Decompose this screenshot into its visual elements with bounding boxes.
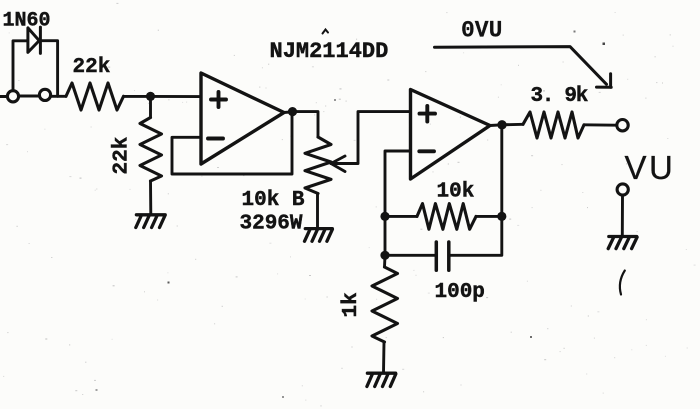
ground G2: [305, 229, 333, 242]
resistor R1 22k horizontal: [66, 83, 124, 110]
svg-text:10k B: 10k B: [242, 189, 305, 212]
terminal circle left: [7, 91, 18, 102]
wire diode branch left leg: [13, 41, 27, 90]
ground G3: [367, 373, 396, 386]
svg-text:22k: 22k: [73, 56, 111, 79]
wire 22k vertical to ground: [149, 181, 152, 214]
potentiometer VR1 10k B 3296W: [305, 137, 331, 194]
wire U1 apex to output node: [284, 110, 293, 114]
node C U2 output junction dot: [497, 120, 506, 129]
node A junction dot: [146, 92, 155, 101]
potentiometer wiper arrow: [331, 156, 345, 172]
wire U1 minus input feedback: [172, 112, 292, 174]
wire node D down to cap branch: [384, 216, 387, 255]
svg-text:3. 9k: 3. 9k: [531, 85, 588, 108]
wire U2 output down to feedback: [500, 125, 503, 217]
op-amp U2: [411, 90, 491, 180]
wire node D to 10k resistor: [385, 215, 417, 218]
wire node F down to 1k: [383, 255, 386, 267]
resistor R5 3.9k: [523, 112, 584, 138]
node F cap left junction dot: [380, 251, 389, 260]
svg-text:10k: 10k: [437, 180, 475, 203]
terminal circle output: [617, 120, 628, 131]
diode D1 1N60: [28, 27, 41, 53]
capacitor C1 100p: [436, 242, 449, 270]
op-amp U1 plus symbol: [211, 92, 226, 107]
svg-text:VU: VU: [625, 149, 676, 186]
wire 3.9k to output terminal: [584, 123, 616, 126]
resistor R4 1k: [372, 267, 398, 342]
wire U2 output to 3.9k: [502, 123, 523, 126]
wire wiper to U2 + input: [331, 112, 411, 164]
svg-text:100p: 100p: [435, 281, 485, 304]
svg-text:3296W: 3296W: [240, 213, 303, 236]
svg-text:0VU: 0VU: [461, 17, 502, 43]
ground G4: [608, 237, 637, 249]
wire 1k to ground: [382, 342, 385, 373]
terminal circle right: [39, 89, 50, 100]
wire node A down to 22k vertical: [149, 96, 152, 117]
node D feedback left junction dot: [380, 212, 389, 221]
wire node F to capacitor: [385, 254, 435, 257]
wire VU terminal to ground: [621, 195, 624, 236]
resistor R3 10k feedback: [417, 204, 476, 230]
op-amp U2 minus symbol: [419, 149, 434, 153]
resistor R2 22k vertical: [140, 118, 162, 182]
svg-text:22k: 22k: [111, 137, 134, 175]
wire node A to op-amp U1 + input: [151, 95, 202, 98]
svg-text:1k: 1k: [340, 292, 363, 317]
op-amp U1 minus symbol: [208, 137, 223, 141]
wire capacitor to right vertical: [450, 218, 502, 255]
wire 10k to node E: [476, 215, 502, 218]
svg-text:NJM2114DD: NJM2114DD: [270, 39, 389, 64]
wire U2 apex to output node: [490, 123, 502, 127]
ground G1: [136, 215, 165, 228]
terminal circle VU ground: [617, 184, 628, 195]
wire between terminals: [20, 95, 39, 98]
wire U1 output to potentiometer top: [293, 112, 319, 137]
0VU arrow: [435, 47, 612, 88]
svg-text:1N60: 1N60: [3, 10, 51, 33]
wire input stub: [0, 95, 7, 98]
wire pot bottom to ground: [316, 194, 319, 228]
op-amp U1: [201, 73, 284, 164]
wire resistor to node A: [124, 95, 151, 98]
wire diode branch right leg: [40, 41, 57, 97]
wire terminal to 22k resistor: [52, 95, 67, 98]
wire U2 minus input down left: [385, 151, 411, 216]
node B U1 output junction dot: [288, 107, 297, 116]
node E feedback right junction dot: [497, 212, 506, 221]
op-amp U2 plus symbol: [420, 106, 436, 122]
